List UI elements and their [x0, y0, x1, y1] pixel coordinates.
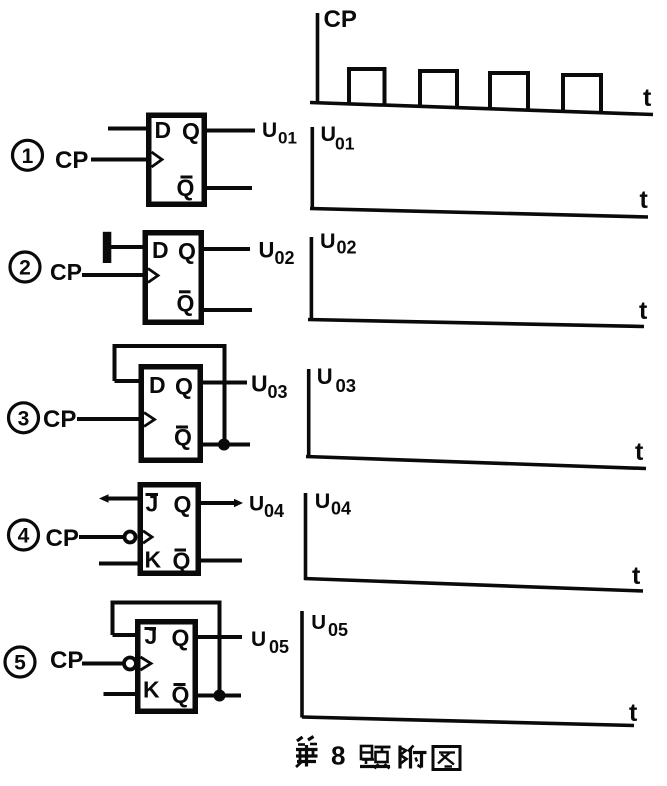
svg-text:CP: CP — [50, 259, 82, 285]
svg-text:Q: Q — [175, 373, 193, 399]
svg-text:CP: CP — [324, 6, 357, 33]
svg-text:01: 01 — [278, 129, 297, 148]
svg-text:U: U — [262, 119, 277, 142]
svg-text:D: D — [149, 372, 166, 398]
svg-text:3: 3 — [18, 407, 30, 430]
svg-text:J: J — [146, 491, 159, 517]
svg-text:4: 4 — [18, 525, 30, 548]
svg-text:Q: Q — [173, 548, 191, 574]
svg-text:t: t — [639, 297, 648, 325]
svg-text:CP: CP — [50, 647, 83, 674]
svg-text:U: U — [315, 489, 331, 513]
svg-text:1: 1 — [22, 145, 34, 168]
svg-text:Q: Q — [178, 238, 196, 264]
svg-text:t: t — [640, 186, 649, 214]
svg-text:D: D — [155, 117, 172, 143]
svg-text:t: t — [629, 699, 638, 727]
svg-text:U: U — [311, 611, 326, 634]
svg-text:Q: Q — [177, 175, 195, 201]
svg-text:Q: Q — [172, 682, 190, 708]
svg-text:CP: CP — [46, 525, 79, 552]
svg-text:2: 2 — [19, 257, 31, 280]
svg-text:U: U — [251, 628, 266, 651]
svg-text:U: U — [259, 238, 275, 263]
svg-text:J: J — [145, 623, 158, 649]
svg-text:05: 05 — [328, 620, 348, 640]
svg-text:02: 02 — [275, 248, 295, 268]
svg-text:U: U — [251, 371, 268, 397]
svg-text:U: U — [317, 364, 333, 389]
svg-text:5: 5 — [14, 652, 26, 675]
svg-text:t: t — [632, 562, 641, 590]
svg-text:K: K — [145, 547, 162, 573]
svg-text:CP: CP — [43, 406, 76, 433]
svg-text:Q: Q — [177, 290, 195, 316]
svg-text:t: t — [635, 438, 644, 466]
svg-text:Q: Q — [174, 424, 192, 450]
svg-text:D: D — [152, 237, 169, 263]
svg-text:04: 04 — [331, 498, 351, 518]
svg-text:CP: CP — [55, 147, 88, 174]
svg-text:Q: Q — [182, 118, 200, 144]
svg-text:04: 04 — [264, 501, 284, 521]
svg-text:U: U — [249, 493, 264, 516]
svg-text:U: U — [320, 229, 336, 253]
svg-text:03: 03 — [268, 382, 288, 402]
svg-text:Q: Q — [174, 491, 192, 517]
svg-text:05: 05 — [269, 637, 289, 657]
svg-text:01: 01 — [335, 134, 355, 154]
svg-text:03: 03 — [336, 375, 357, 396]
svg-text:8: 8 — [331, 741, 345, 771]
svg-text:02: 02 — [337, 237, 357, 257]
svg-text:t: t — [643, 84, 652, 112]
svg-text:K: K — [143, 677, 160, 703]
svg-text:Q: Q — [172, 625, 190, 651]
svg-text:U: U — [321, 122, 337, 146]
